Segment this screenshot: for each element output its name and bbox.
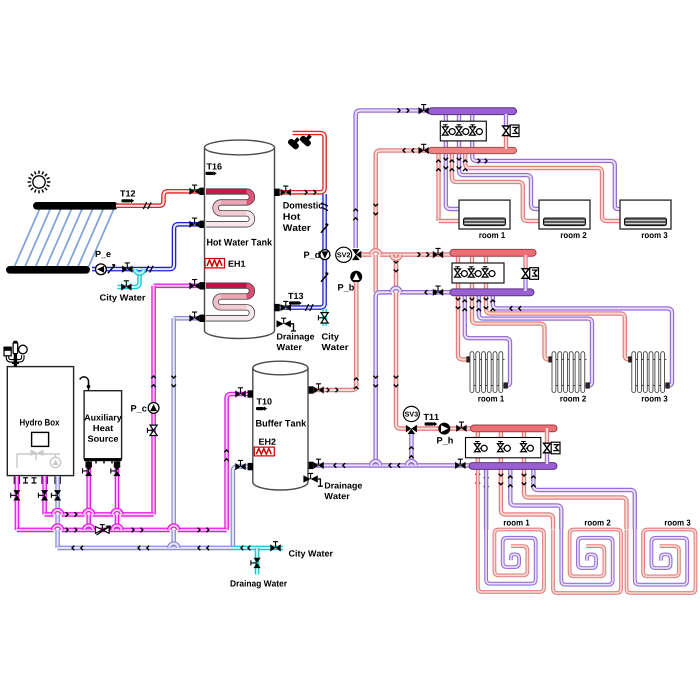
solar collector top header bar	[33, 202, 118, 210]
label T13	[288, 293, 303, 299]
pipe: aux stub 2 (magenta)	[115, 462, 120, 530]
hop lower header over stub C	[53, 526, 62, 534]
pipe: floor supply room3 (salmon)	[524, 430, 627, 529]
pipe: fan-coil supply room2 (purple)	[459, 114, 540, 209]
hydro box stub C connection square	[54, 477, 60, 484]
valve before bottom return manifold	[455, 459, 465, 469]
valve aux stub 1	[83, 466, 93, 476]
flow arrows drop to SV3 upper	[394, 261, 399, 272]
valve after middle return manifold	[433, 286, 443, 296]
hydro box stub A connection square	[14, 477, 20, 484]
flow arrows trunk 2	[389, 463, 400, 468]
sensor T10 mark	[256, 406, 267, 410]
valve before bottom supply manifold	[456, 422, 466, 432]
valve at tank solar inlet	[189, 185, 199, 195]
pipe: hot supply header lower (magenta)	[17, 528, 227, 533]
tank connection square (T13)	[274, 304, 279, 311]
arrows upper header	[66, 512, 77, 517]
label Drainag Water	[231, 580, 287, 588]
balancing valve+meter 3 (fan-coil box)	[470, 125, 483, 135]
stub salmon from motor valve (fan-coil)	[504, 136, 508, 149]
pipe: tank coil return (lavender)	[174, 316, 200, 321]
drainage valve (hot water tank)	[277, 318, 297, 331]
pipe: buffer supply to P_b (salmon)	[313, 282, 356, 390]
pipe break marks on solar supply	[143, 202, 151, 209]
pipe: floor return room3 (purple)	[533, 469, 634, 529]
motorized valve (fan-coil manifold)	[503, 125, 519, 137]
pipe: cold return header (lavender)	[58, 546, 233, 551]
pipe: fan-coil return room2 (salmon)	[452, 154, 540, 221]
check valve after P_e	[108, 265, 115, 273]
buffer connection square (return)	[308, 462, 313, 469]
hot water tank body	[205, 140, 275, 338]
arrows rad a	[456, 298, 461, 309]
valve at tank coil outlet	[189, 312, 199, 322]
solar collector absorber lines	[13, 207, 115, 271]
pump P_d	[320, 250, 330, 260]
floor heating loop room 2 (supply spiral)	[553, 530, 621, 594]
aux bottom flange	[84, 459, 122, 464]
valve hydro stub B	[38, 490, 48, 500]
manifold: radiator supply (salmon)	[450, 249, 536, 256]
check valve above P_d	[321, 224, 328, 232]
arrows fc drops e	[463, 160, 468, 171]
label Drainage Water (buffer)	[324, 482, 362, 499]
hop upper header over aux 2	[113, 510, 122, 518]
tank connection square (coil outlet)	[200, 315, 205, 322]
tee joint aux stub 1 into lower header	[84, 526, 93, 530]
label room 3 (floor)	[665, 520, 691, 526]
tank connection square (coil inlet)	[200, 282, 205, 289]
arrows lower header2	[132, 528, 143, 533]
valve aux stub 2	[111, 466, 121, 476]
pipe: hydro supply to buffer (magenta)	[227, 394, 248, 530]
differential bypass valve	[96, 525, 111, 535]
balancing valve+meter 1 (radiator box)	[455, 267, 468, 277]
hop SV2 line over top-circuit return	[371, 250, 380, 258]
valve city water bottom	[270, 542, 280, 552]
label City Water (bottom)	[289, 550, 333, 558]
floor heating loop room 1 (return spiral)	[486, 469, 536, 584]
pipe: SV3 bypass to return trunk (purple)	[409, 434, 414, 465]
valve on solar return	[122, 263, 132, 273]
flow arrows riser	[353, 209, 358, 220]
arrows city water bottom	[241, 546, 250, 551]
hop upper header over aux 1	[84, 510, 93, 518]
3-way valve SV3	[406, 425, 417, 434]
solar collector bottom header bar	[6, 266, 90, 274]
arrows floor a	[476, 474, 481, 485]
pump P_h	[439, 423, 450, 434]
check valve below P_d	[321, 273, 328, 281]
arrows rad d	[477, 300, 482, 311]
label room 1 (fan coil)	[479, 232, 505, 238]
pipe: solar return (blue)	[92, 224, 200, 269]
pipe: domestic hot water out (red)	[279, 133, 325, 192]
arrows rad b	[463, 300, 468, 311]
manifold: fan-coil return (salmon)	[429, 147, 517, 153]
flow arrows SV3 bypass	[409, 447, 414, 458]
flow arrows top return	[403, 148, 414, 153]
arrows floor b	[484, 476, 489, 487]
arrows return header3	[198, 546, 209, 551]
label P_c	[131, 405, 146, 412]
tee joint SV3 bypass into trunk	[407, 461, 416, 465]
heater EH1	[205, 259, 225, 268]
radiator room 3	[628, 352, 670, 393]
break on T13 line	[305, 304, 313, 311]
motorized valve (floor manifold)	[544, 442, 560, 454]
aux connection square 1	[86, 462, 92, 468]
sensor T13 mark	[289, 301, 302, 305]
pipe: radiator return room3 (purple)	[493, 294, 672, 386]
fan coil unit room 3	[620, 200, 671, 229]
manifold: radiator return (purple)	[450, 289, 534, 296]
tee joint SV3 drop from supply line	[392, 255, 401, 259]
arrows P_c riser	[151, 376, 156, 387]
label P_h	[437, 437, 453, 445]
tee joint tank-coil return into cold header	[169, 544, 178, 548]
pipe: floor supply room2 (salmon)	[501, 430, 553, 529]
hop upper header over stub C	[53, 510, 62, 518]
shower heads	[287, 131, 315, 150]
arrows floor d	[508, 476, 513, 487]
label P_e	[96, 251, 111, 258]
tank connection square (solar outlet)	[200, 221, 205, 228]
flow arrows buffer supply	[354, 378, 359, 389]
radiator room 2	[548, 352, 590, 393]
pipe: tank coil return riser (lavender)	[171, 318, 176, 548]
auxiliary heat source box	[84, 391, 122, 459]
hydro box top fittings	[4, 341, 28, 367]
valve on DHW outlet	[281, 186, 291, 196]
floor heating loop room 3 (supply spiral)	[627, 530, 696, 594]
balancing valve+meter 3 (radiator box)	[482, 267, 495, 277]
arrows floor e	[522, 474, 527, 485]
flow arrows buffer supply h	[327, 388, 338, 393]
balancing valve+meter 2 (floor box)	[498, 442, 511, 452]
flow arrows top return v	[373, 204, 378, 215]
label T12	[120, 190, 135, 196]
valve at tank T13 inlet	[281, 301, 291, 311]
fan-coil manifold valve box	[440, 121, 486, 141]
label room 1 (radiator)	[478, 396, 504, 402]
sensor T11 mark	[425, 422, 438, 426]
hydro box bottom flanges	[23, 477, 37, 483]
floor heating loop room 1 (supply spiral)	[478, 470, 544, 592]
tee joint mid return into trunk	[371, 461, 380, 465]
pipe: DHW recirculation (blue)	[279, 194, 325, 308]
arrows fc drops c	[450, 160, 455, 171]
valve at tank coil inlet	[189, 280, 199, 290]
label T16	[207, 163, 222, 169]
label EH2	[259, 439, 276, 445]
label room 2 (fan coil)	[561, 232, 587, 238]
arrows lower header	[66, 528, 77, 533]
sensor T16 mark	[206, 171, 217, 175]
valve at buffer cold outlet	[235, 460, 245, 470]
arrows lavender riser	[171, 376, 176, 387]
balancing valve+meter 1 (floor box)	[474, 442, 487, 452]
pipe: fan-coil return room3 (salmon)	[465, 154, 621, 221]
label Drainage Water (hot water tank)	[277, 333, 315, 350]
buffer connection square (cold outlet)	[248, 463, 253, 470]
label room 1 (floor)	[504, 520, 530, 526]
label SV3	[405, 412, 418, 417]
pipe: aux stub 1 (magenta)	[86, 462, 91, 530]
pipe: radiator return room2 (purple)	[479, 294, 592, 386]
pipe: drainage stub (cyan)	[255, 548, 260, 574]
pipe: radiator supply room2 (salmon)	[472, 256, 553, 360]
3-way valve SV2	[352, 249, 361, 260]
arrows rad e	[484, 298, 489, 309]
valve after top return manifold	[419, 144, 429, 154]
tank connection square (solar inlet)	[200, 188, 205, 195]
flow arrows DHW	[305, 190, 316, 195]
pipe: fan-coil supply room1 (purple)	[446, 114, 460, 209]
label P_b	[338, 284, 354, 292]
buffer connection square (hot outlet)	[308, 386, 313, 393]
flow arrows drop to SV3	[394, 376, 399, 387]
buffer connection square (hot inlet)	[248, 390, 253, 397]
balancing valve+meter 3 (floor box)	[521, 442, 534, 452]
valve at buffer return inlet	[313, 459, 323, 469]
radiator room 1	[466, 352, 508, 393]
pipe: city water feed (cyan)	[118, 271, 140, 287]
stub purple from motor valve (radiator)	[523, 278, 527, 291]
valve before middle supply manifold	[433, 248, 443, 258]
label room 2 (floor)	[585, 520, 611, 526]
balancing valve+meter 2 (radiator box)	[468, 267, 481, 277]
pipe: top circuit return (salmon)	[376, 151, 433, 293]
arrows return header	[72, 546, 83, 551]
pipe: city water to DHW (cyan)	[322, 309, 327, 326]
arrows lower header3	[198, 528, 209, 533]
pipe: radiator supply room1 (salmon)	[458, 256, 471, 360]
valve on DHW city water	[318, 313, 328, 323]
hydro box internal piping watermark	[17, 450, 61, 469]
pipe: city water bottom (cyan)	[233, 546, 283, 551]
label P_d	[304, 251, 320, 259]
pipe: SV2 to middle supply manifold (salmon)	[361, 252, 454, 257]
label Hot Water Tank	[207, 239, 272, 246]
arrows return header2	[138, 546, 149, 551]
label Auxiliary Heat Source	[84, 414, 121, 442]
break on recirculation	[321, 203, 328, 211]
arrows fc row3	[478, 159, 487, 164]
pump P_b	[351, 271, 362, 282]
pipe: middle circuit return (purple)	[376, 292, 454, 465]
arrows fc drops a	[436, 160, 441, 171]
pipe: hydro supply to tank coil (magenta)	[154, 283, 200, 288]
pipe: fan-coil supply room3 (purple)	[472, 114, 621, 209]
pump P_e	[96, 264, 107, 275]
stub salmon to motor valve (floor)	[545, 428, 549, 443]
stub purple from motor valve (floor)	[545, 453, 549, 464]
fan coil unit room 1	[459, 200, 510, 229]
flow arrows mid return	[425, 290, 436, 295]
ellipse SV2	[336, 247, 352, 262]
upper coil (solar heat exchanger)	[206, 192, 252, 225]
flow arrows mid return v	[373, 376, 378, 387]
tee joint city water from solar return	[135, 269, 144, 273]
valve drainage stub	[251, 558, 261, 568]
pipe: fan-coil return room1 (salmon)	[436, 154, 440, 221]
label T11	[424, 414, 439, 420]
pipe: P_c riser (magenta)	[151, 286, 156, 515]
arrows floor c	[499, 474, 504, 485]
buffer tank body	[253, 361, 308, 490]
balancing valve+meter 1 (fan-coil box)	[442, 125, 455, 135]
arrows rad f	[491, 300, 496, 311]
manifold: floor return (purple)	[469, 463, 557, 470]
hop lower header over lavender riser	[169, 526, 178, 534]
drainage valve (buffer tank)	[303, 473, 323, 486]
stub salmon to motor valve (radiator)	[523, 255, 527, 269]
tank connection square (DHW out)	[274, 189, 279, 196]
pipe: SV3 to bottom supply manifold	[416, 426, 475, 431]
hop over SV3 drop	[392, 288, 401, 296]
stub purple to motor valve (fan-coil)	[504, 114, 508, 126]
floor heating loop room 3 (return spiral)	[635, 529, 687, 585]
manifold: fan-coil supply (purple)	[429, 108, 517, 115]
valve before top supply manifold	[419, 105, 429, 115]
label room 3 (radiator)	[642, 396, 668, 402]
valve hydro stub C	[51, 490, 61, 500]
balancing valve+meter 2 (fan-coil box)	[456, 125, 469, 135]
floor heating loop room 2 (return spiral)	[561, 529, 612, 585]
label City Water	[100, 294, 145, 302]
pipe: floor supply room1 (salmon)	[476, 430, 480, 470]
heater EH2	[254, 447, 274, 456]
valve at buffer hot inlet	[235, 388, 245, 398]
label T10	[257, 398, 272, 404]
sun icon	[28, 171, 51, 194]
label Hydro Box	[20, 419, 59, 428]
arrows fc drops d	[457, 158, 462, 169]
flow arrows to top manifold	[398, 108, 409, 113]
ellipse SV3	[403, 406, 419, 421]
pipe: floor return room1 (purple)	[484, 469, 488, 530]
sensor T12 mark	[122, 199, 135, 203]
flow arrows trunk	[334, 463, 345, 468]
flow arrows to mid manifold	[418, 252, 429, 257]
floor manifold valve box	[466, 438, 541, 458]
lower coil (hydro heat exchanger)	[206, 286, 252, 319]
pipe break marks on solar return	[145, 266, 153, 273]
aux overflow hook	[80, 377, 90, 391]
pipe: radiator return room1 (purple)	[465, 294, 510, 386]
label room 3 (fan coil)	[642, 232, 668, 238]
hydro box inner display	[32, 432, 49, 446]
pump P_c	[148, 403, 159, 414]
pipe: fan-coil return room1 h (salmon)	[439, 219, 461, 223]
pipe: hydro stub A (magenta)	[15, 476, 20, 530]
valve on city water feed	[121, 281, 131, 291]
label EH1	[229, 261, 246, 267]
radiator manifold valve box	[452, 263, 504, 283]
arrows rad row	[510, 306, 521, 311]
pipe: salmon drop to SV3 branch	[396, 255, 406, 429]
hydro box stub B connection square	[41, 477, 47, 484]
label SV2	[337, 252, 350, 257]
pipe: hydro stub B (magenta)	[42, 476, 47, 514]
pipe: purple riser to fan-coil manifold	[356, 111, 433, 249]
aux connection square 2	[114, 462, 120, 468]
arrows floor f	[531, 476, 536, 487]
arrows fc drops b	[444, 158, 449, 169]
fan coil unit room 2	[539, 200, 590, 229]
manifold: floor supply (salmon)	[471, 425, 558, 432]
label room 2 (radiator)	[560, 396, 586, 402]
tee joint aux stub 2 into lower header	[113, 526, 122, 530]
pipe: solar hot supply (red)	[116, 191, 200, 205]
pipe: hydro stub C (lavender)	[55, 476, 60, 548]
label City Water (DHW)	[322, 333, 349, 350]
valve at buffer hot outlet	[313, 384, 323, 394]
hydro box	[7, 367, 73, 476]
pipe: radiator supply room3 (salmon)	[486, 256, 633, 360]
valve below P_c	[147, 425, 157, 435]
motorized valve (radiator manifold)	[522, 268, 538, 280]
pipe: buffer cold return (lavender)	[233, 467, 248, 547]
pipe: hot supply header upper (magenta)	[45, 512, 154, 517]
pipe: main return trunk (purple)	[313, 463, 474, 468]
arrows rad c	[470, 298, 475, 309]
valve at tank solar outlet	[189, 218, 199, 228]
arrows buffer magenta	[224, 450, 229, 461]
valve hydro stub A	[11, 490, 21, 500]
label Buffer Tank	[256, 420, 306, 427]
label Domestic Hot Water	[283, 202, 323, 231]
pipe: floor return room2 (purple)	[510, 469, 561, 529]
